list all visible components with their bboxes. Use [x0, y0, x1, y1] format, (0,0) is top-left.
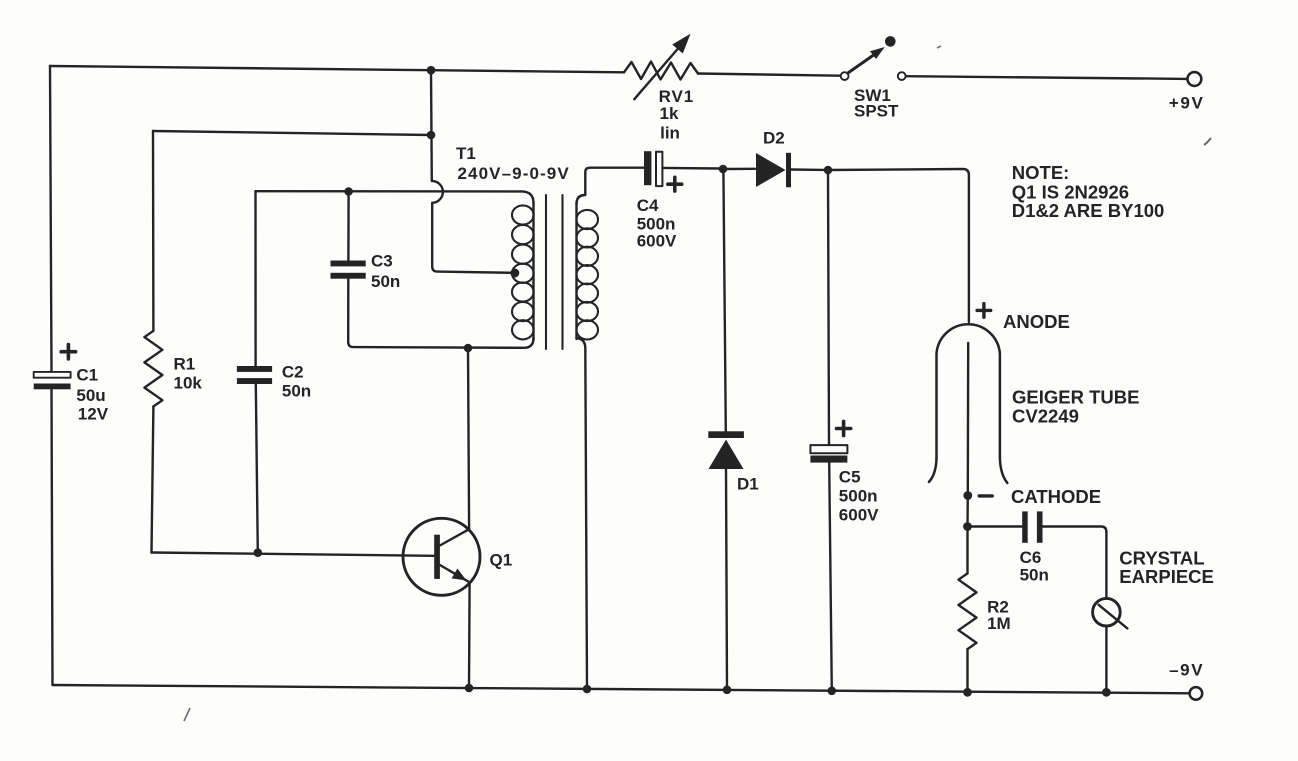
svg-text:50n: 50n: [282, 382, 311, 401]
svg-text:+9V: +9V: [1169, 93, 1205, 112]
tube anode plus sign: [977, 304, 991, 318]
wire second rail (top of R1 to oscillator feed junction): [152, 131, 155, 331]
capacitor C1 hollow plate: [34, 372, 71, 378]
svg-text:CATHODE: CATHODE: [1011, 486, 1101, 507]
C5 polarity plus sign: [837, 421, 851, 435]
switch SW1 lever arrowhead: [870, 47, 885, 59]
svg-text:D2: D2: [763, 128, 785, 147]
resistor R2 top lead: [966, 527, 968, 574]
capacitor C1 solid plate: [34, 384, 71, 390]
capacitor C5 bottom lead: [829, 463, 832, 691]
svg-text:600V: 600V: [839, 506, 879, 525]
wire emitter to bottom rail: [468, 582, 471, 688]
svg-text:500n: 500n: [637, 214, 676, 233]
geiger tube inner electrode: [967, 343, 970, 496]
wire cathode down to C6 junction: [966, 496, 969, 527]
scan speck top middle: [937, 46, 941, 48]
wire C4 to D1 junction: [662, 167, 718, 170]
wire oscillator feed vertical (with hop): [431, 70, 512, 273]
capacitor C5 top lead: [828, 170, 829, 445]
svg-text:EARPIECE: EARPIECE: [1119, 566, 1214, 587]
capacitor C3 bottom lead: [348, 279, 523, 348]
node junction T1 centre tap: [510, 269, 519, 278]
node junction C5 bottom: [828, 687, 837, 696]
wire top rail left segment (+9V rail from top-left corner to RV1): [50, 66, 624, 72]
node junction top rail feed: [427, 66, 436, 75]
svg-text:10k: 10k: [174, 373, 203, 392]
svg-text:50u: 50u: [76, 386, 105, 405]
wire left rail (from top-left corner down to C1): [50, 66, 52, 372]
cathode minus sign: [979, 494, 992, 497]
earpiece circle: [1093, 598, 1121, 626]
node junction second rail feed: [427, 131, 436, 140]
capacitor C4 solid plate: [644, 151, 651, 185]
svg-text:CV2249: CV2249: [1012, 405, 1079, 426]
wire C6 left lead: [968, 525, 1023, 527]
wire transistor base rail: [152, 553, 435, 556]
capacitor C2 top lead: [254, 191, 257, 366]
svg-text:D1: D1: [737, 475, 759, 494]
resistor R1 bottom lead: [152, 407, 154, 553]
transformer T1 secondary winding spine: [575, 203, 577, 339]
capacitor C2 bottom lead: [256, 384, 258, 553]
svg-text:R1: R1: [174, 354, 196, 373]
capacitor C2 plates: [237, 366, 272, 384]
transistor Q1 base bar: [434, 535, 440, 579]
geiger tube right flare: [1000, 458, 1008, 483]
capacitor C4 hollow plate: [656, 152, 662, 186]
capacitor C3 plates: [331, 261, 366, 279]
node junction C3 top: [344, 187, 353, 196]
C4 polarity plus sign: [668, 177, 682, 191]
node junction earpiece bottom: [1102, 688, 1111, 697]
transistor Q1 collector line: [440, 529, 469, 545]
svg-text:1M: 1M: [987, 614, 1011, 633]
node junction D1 top: [719, 165, 728, 174]
resistor R1 zigzag: [144, 331, 162, 407]
wire C5 junction to tube anode corner: [828, 169, 969, 322]
svg-text:C6: C6: [1020, 548, 1042, 567]
terminal -9V circle: [1190, 687, 1203, 700]
transformer T1 primary loops: [512, 205, 534, 339]
svg-text:50n: 50n: [371, 272, 400, 291]
node junction secondary bottom: [583, 685, 592, 694]
node junction collector: [464, 344, 473, 353]
transistor Q1 emitter arrowhead: [452, 569, 467, 581]
svg-text:NOTE:: NOTE:: [1012, 162, 1070, 183]
transformer T1 secondary top lead: [577, 168, 645, 204]
svg-text:SPST: SPST: [854, 102, 899, 121]
transformer T1 primary bottom corner: [524, 338, 534, 348]
geiger tube left flare: [929, 458, 937, 482]
svg-text:lin: lin: [660, 124, 680, 143]
node junction D1 bottom: [723, 686, 732, 695]
svg-text:C5: C5: [839, 468, 861, 487]
svg-text:T1: T1: [456, 144, 476, 163]
svg-text:50n: 50n: [1020, 566, 1049, 585]
diode D1 cathode bar: [708, 431, 744, 438]
svg-text:1k: 1k: [660, 104, 679, 123]
wire top rail from SW1 to +9V terminal: [906, 76, 1186, 79]
node junction base rail / C2: [253, 548, 262, 557]
transformer T1 secondary loops: [576, 210, 598, 340]
capacitor C3 top lead: [347, 192, 350, 261]
wire D1 junction to D2: [723, 168, 755, 171]
svg-text:C1: C1: [76, 365, 98, 384]
svg-text:–9V: –9V: [1169, 660, 1204, 679]
scan speck bottom left: [184, 708, 190, 721]
svg-text:C3: C3: [371, 251, 393, 270]
node cathode: [963, 491, 972, 500]
wire collector to T1 primary bottom: [468, 348, 469, 529]
wire bottom rail (0V rail): [53, 685, 1190, 693]
switch SW1 lever end dot: [885, 36, 896, 47]
resistor RV1 zigzag: [624, 62, 698, 80]
diode D1 top lead: [723, 169, 725, 431]
svg-text:Q1: Q1: [490, 550, 513, 569]
switch SW1 left contact circle: [841, 72, 849, 80]
wire D2 to C5 junction: [791, 168, 824, 171]
terminal +9V circle: [1188, 72, 1202, 86]
geiger tube envelope: [937, 324, 1000, 458]
svg-text:600V: 600V: [637, 232, 677, 251]
wire earpiece to bottom rail: [1105, 626, 1107, 692]
transformer T1 core lines: [545, 195, 547, 349]
capacitor C6 plates: [1022, 511, 1042, 542]
wire second rail horizontal: [153, 131, 431, 135]
svg-text:ANODE: ANODE: [1003, 311, 1070, 332]
switch SW1 right contact circle: [898, 72, 906, 80]
node junction C5 top: [824, 166, 833, 175]
wire left rail below C1 to bottom-left corner: [52, 389, 53, 685]
wire C6 to earpiece: [1043, 527, 1107, 599]
scan speck right apostrophe: [1204, 138, 1211, 145]
wire top rail between RV1 and SW1: [698, 74, 840, 76]
transformer T1 secondary bottom lead: [577, 338, 588, 689]
diode D2 cathode bar: [786, 153, 791, 188]
node junction emitter bottom: [465, 684, 474, 693]
svg-text:D1&2 ARE BY100: D1&2 ARE BY100: [1012, 200, 1165, 221]
svg-text:C2: C2: [282, 362, 304, 381]
resistor R2 bottom lead: [966, 649, 968, 692]
transformer T1 primary winding spine: [532, 202, 534, 340]
capacitor C5 solid plate: [810, 456, 847, 463]
node junction C6 / R2: [963, 522, 972, 531]
transistor Q1 circle: [403, 518, 480, 595]
RV1 wiper arrow shaft: [634, 45, 681, 100]
svg-text:C4: C4: [637, 196, 659, 215]
diode D2 triangle: [756, 153, 786, 187]
svg-text:12V: 12V: [78, 404, 109, 423]
capacitor C5 hollow plate: [810, 445, 847, 453]
node junction R2 bottom: [963, 688, 972, 697]
diode D1 triangle: [709, 440, 744, 470]
switch SW1 lever: [848, 53, 877, 73]
C1 polarity plus sign: [61, 345, 75, 359]
svg-text:240V–9-0-9V: 240V–9-0-9V: [458, 164, 570, 183]
svg-text:500n: 500n: [839, 487, 878, 506]
resistor R2 zigzag: [959, 573, 977, 649]
RV1 wiper arrowhead: [672, 34, 690, 54]
diode D1 bottom lead: [726, 469, 727, 690]
earpiece diagonal line: [1099, 605, 1128, 629]
transistor Q1 emitter line: [440, 565, 470, 582]
wire C2/C3 top rail to T1 primary top: [256, 191, 534, 203]
